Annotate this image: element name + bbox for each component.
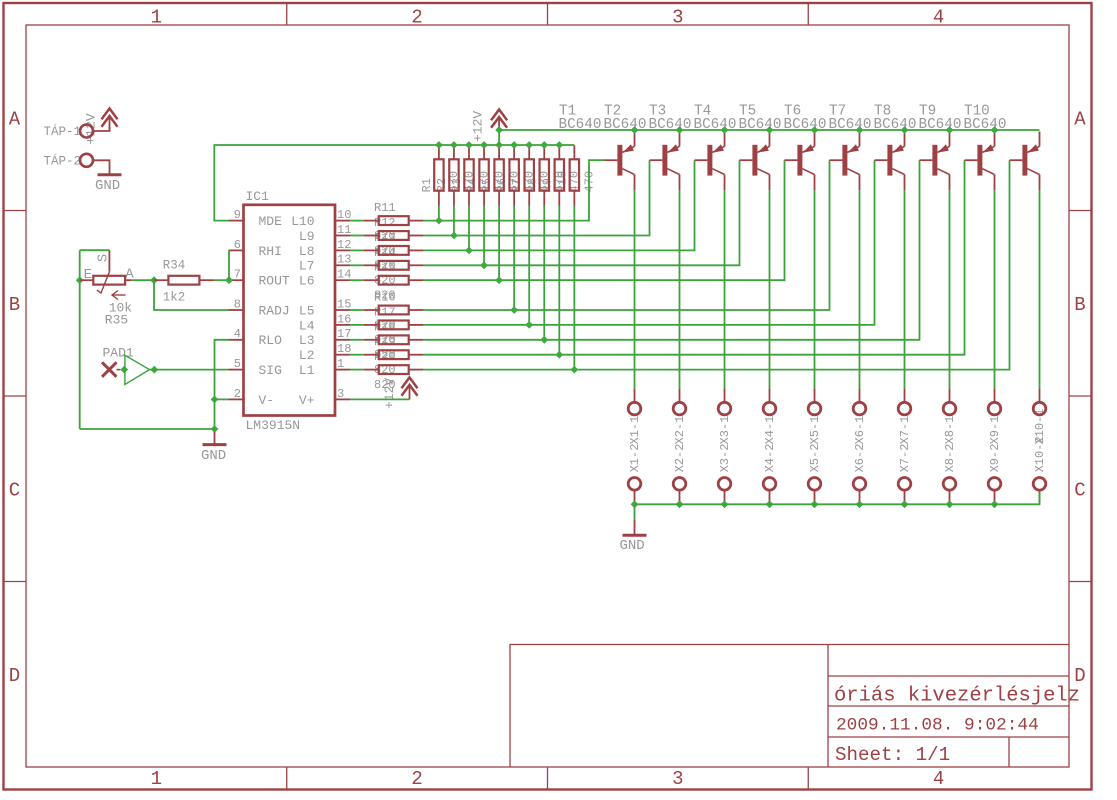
transistor T5 BC640: [797, 145, 802, 176]
resistor R16 820: [364, 309, 379, 311]
node junction bus: [495, 141, 503, 149]
wire resistor to row: [543, 206, 545, 340]
svg-text:X7-1: X7-1: [898, 416, 912, 445]
resistor R9 470: [558, 145, 560, 159]
connector X9-2: [988, 478, 1001, 491]
resistor R1 470: [438, 145, 440, 159]
node junction bus: [540, 141, 548, 149]
node junction: [465, 247, 473, 255]
node junction emitter bus: [676, 126, 684, 134]
svg-text:2009.11.08. 9:02:44: 2009.11.08. 9:02:44: [836, 716, 1039, 736]
node junction gnd: [211, 425, 219, 433]
svg-text:C: C: [9, 479, 20, 501]
wire row to transistor base: [424, 160, 965, 355]
node junction triangle tip: [150, 366, 158, 374]
node junction gnd bus: [991, 500, 999, 508]
svg-text:V+: V+: [299, 393, 315, 408]
node junction emitter bus: [631, 126, 639, 134]
transistor T3 BC640: [707, 145, 712, 176]
wire down to ground bus: [214, 399, 216, 429]
node junction gnd bus: [721, 500, 729, 508]
svg-text:R18: R18: [374, 320, 396, 334]
wire row to transistor base: [424, 160, 1010, 369]
node junction gnd bus: [766, 500, 774, 508]
wire resistor to row: [558, 206, 560, 355]
wire collector down: [904, 190, 906, 388]
resistor R5 470: [498, 145, 500, 159]
wire row to transistor base: [424, 160, 605, 220]
supply +12V arrow (top): [491, 117, 507, 128]
supply +12V arrow (V+): [402, 385, 418, 396]
node junction bus: [510, 141, 518, 149]
node junction gnd bus: [676, 500, 684, 508]
pin 10 L10: [335, 220, 350, 222]
connector X2-1: [679, 388, 681, 402]
svg-text:ROUT: ROUT: [259, 274, 290, 289]
node junction emitter bus: [721, 126, 729, 134]
frame column dividers bottom: [286, 767, 288, 790]
svg-text:A: A: [9, 108, 21, 130]
svg-text:LM3915N: LM3915N: [246, 418, 301, 433]
svg-text:X4-1: X4-1: [763, 416, 777, 445]
svg-text:L3: L3: [299, 333, 315, 348]
wire emitter bus: [499, 129, 1039, 131]
svg-text:RHI: RHI: [259, 244, 282, 259]
svg-text:X8-1: X8-1: [943, 416, 957, 445]
wire L3: [350, 339, 364, 341]
wire pot left/wiper net: [80, 249, 110, 251]
svg-text:X1-2: X1-2: [628, 444, 642, 473]
wire L1: [350, 369, 364, 371]
node junction: [435, 217, 443, 225]
svg-text:IC1: IC1: [246, 189, 270, 204]
title block grid: [827, 645, 829, 768]
svg-text:X9-1: X9-1: [988, 416, 1002, 445]
resistor R17 820: [364, 324, 379, 326]
svg-text:R17: R17: [374, 305, 396, 319]
node junction: [525, 321, 533, 329]
op-amp U1 IC1 LM3915N body: [244, 205, 336, 416]
node junction emitter bus: [811, 126, 819, 134]
wire collector down: [769, 190, 771, 388]
pin 9 MDE: [229, 220, 244, 222]
connector X8-1: [949, 388, 951, 402]
svg-text:L5: L5: [299, 303, 315, 318]
wire RLO down to V-: [215, 340, 229, 400]
wire row to transistor base: [424, 160, 785, 280]
svg-text:R34: R34: [163, 259, 186, 273]
resistor R3 470: [468, 145, 470, 159]
wire connector ground bus: [635, 492, 1040, 504]
transistor T4 BC640: [752, 145, 757, 176]
node junction emitter bus: [856, 126, 864, 134]
svg-text:B: B: [1074, 294, 1085, 316]
wire row to transistor base: [424, 160, 920, 340]
node junction: [480, 261, 488, 269]
resistor R18 820: [364, 339, 379, 341]
svg-text:L9: L9: [299, 229, 315, 244]
node junction bus: [525, 141, 533, 149]
supply +12V arrow (TAP-1): [102, 116, 118, 127]
wire L2: [350, 354, 364, 356]
svg-text:L6: L6: [299, 274, 315, 289]
svg-text:X2-1: X2-1: [673, 416, 687, 445]
pad TAP-1: [80, 125, 93, 138]
transistor T7 BC640: [887, 145, 892, 176]
svg-text:R15: R15: [374, 261, 396, 275]
resistor R19 820: [364, 354, 379, 356]
wire row to transistor base: [424, 160, 830, 310]
svg-text:L10: L10: [291, 214, 314, 229]
svg-text:X4-2: X4-2: [763, 444, 777, 473]
pad TAP-2: [80, 154, 93, 167]
wire V+: [350, 398, 410, 400]
svg-text:X7-2: X7-2: [898, 444, 912, 473]
frame row dividers left: [4, 210, 27, 212]
pin 6 RHI: [229, 249, 244, 251]
connector X4-1: [769, 388, 771, 402]
wire L6: [350, 279, 364, 281]
resistor R10 470: [573, 145, 575, 159]
node junction: [450, 232, 458, 240]
node junction: [540, 336, 548, 344]
transistor T6 BC640: [842, 145, 847, 176]
wire row to transistor base: [424, 160, 740, 265]
node junction emitter bus: [946, 126, 954, 134]
svg-text:R12: R12: [374, 216, 396, 230]
resistor R6 470: [513, 145, 515, 159]
node junction pot E: [76, 276, 84, 284]
node junction gnd bus: [811, 500, 819, 508]
ground GND (IC): [214, 429, 216, 433]
connector X1-1: [634, 388, 636, 402]
wire TAP-2 to GND: [93, 160, 110, 173]
connector X3-1: [724, 388, 726, 402]
svg-text:TÁP-1: TÁP-1: [44, 124, 82, 139]
svg-text:+12V: +12V: [84, 113, 99, 144]
pin 4 RLO: [229, 339, 244, 341]
wire row to transistor base: [424, 160, 650, 235]
svg-text:R13: R13: [374, 231, 396, 245]
svg-text:820: 820: [374, 378, 396, 392]
svg-text:GND: GND: [620, 538, 645, 554]
svg-text:L7: L7: [299, 259, 315, 274]
svg-text:SIG: SIG: [259, 363, 282, 378]
svg-text:R10: R10: [555, 171, 569, 193]
node junction emitter bus: [991, 126, 999, 134]
node junction PAD1: [120, 366, 128, 374]
transistor T1 BC640: [617, 145, 622, 176]
connector X10-1: [1039, 388, 1041, 402]
resistor R15 820: [364, 279, 379, 281]
wire +12V to bus: [498, 130, 500, 145]
svg-text:Sheet: 1/1: Sheet: 1/1: [835, 744, 950, 766]
svg-text:R1: R1: [420, 178, 434, 192]
connector X3-2: [718, 478, 731, 491]
svg-text:X3-1: X3-1: [718, 416, 732, 445]
pin 7 ROUT: [229, 279, 244, 281]
node junction ROUT/RHI: [225, 276, 233, 284]
wire V-: [215, 398, 229, 400]
node junction gnd bus: [901, 500, 909, 508]
wire resistor to row: [483, 206, 485, 266]
transistor T8 BC640: [932, 145, 937, 176]
node junction emitter bus: [901, 126, 909, 134]
svg-text:2: 2: [411, 768, 422, 790]
wire row to transistor base: [424, 160, 875, 325]
svg-text:X10-2: X10-2: [1033, 436, 1047, 472]
svg-text:R14: R14: [374, 246, 396, 260]
transistor T2 BC640: [662, 145, 667, 176]
pin 3 V+: [335, 398, 350, 400]
svg-text:L8: L8: [299, 244, 315, 259]
resistor R8 470: [543, 145, 545, 159]
svg-text:óriás kivezérlésjelz: óriás kivezérlésjelz: [834, 685, 1080, 708]
pin 17 L3: [335, 339, 350, 341]
pin 16 L4: [335, 324, 350, 326]
svg-text:D: D: [1074, 665, 1085, 687]
wire collector down: [859, 190, 861, 388]
pin 2 V-: [229, 398, 244, 400]
pin 14 L6: [335, 279, 350, 281]
connector X5-2: [808, 478, 821, 491]
wire triangle marker: [125, 355, 150, 384]
node junction: [495, 126, 503, 134]
wire resistor to row: [438, 206, 440, 221]
svg-text:1: 1: [151, 768, 162, 790]
wire collector down: [814, 190, 816, 388]
node junction gnd bus: [856, 500, 864, 508]
node junction bus: [480, 141, 488, 149]
svg-text:X8-2: X8-2: [943, 444, 957, 473]
wire collector down: [679, 190, 681, 388]
wire pot A to R34: [131, 279, 154, 281]
connector X1-2: [628, 478, 641, 491]
connector X8-2: [943, 478, 956, 491]
svg-text:3: 3: [672, 768, 683, 790]
wire row to transistor base: [424, 160, 695, 250]
resistor R34 1k2: [154, 279, 168, 281]
pin 8 RADJ: [229, 309, 244, 311]
connector X7-1: [904, 388, 906, 402]
svg-text:R19: R19: [374, 335, 396, 349]
pin 12 L8: [335, 249, 350, 251]
pin 11 L9: [335, 235, 350, 237]
resistor R2 470: [453, 145, 455, 159]
wire L7: [350, 264, 364, 266]
pin 15 L5: [335, 309, 350, 311]
node junction bus: [465, 141, 473, 149]
wire collector down: [949, 190, 951, 388]
svg-text:GND: GND: [201, 448, 226, 464]
transistor T9 BC640: [977, 145, 982, 176]
svg-text:RLO: RLO: [259, 333, 283, 348]
svg-text:V-: V-: [259, 393, 275, 408]
svg-text:X5-1: X5-1: [808, 416, 822, 445]
svg-text:X3-2: X3-2: [718, 444, 732, 473]
svg-text:R35: R35: [105, 313, 128, 328]
node junction: [570, 366, 578, 374]
node junction emitter bus: [766, 126, 774, 134]
node junction gnd bus: [946, 500, 954, 508]
pad PAD1: [102, 362, 117, 377]
wire resistor to row: [498, 206, 500, 281]
resistor R7 470: [528, 145, 530, 159]
connector X5-1: [814, 388, 816, 402]
svg-text:GND: GND: [95, 178, 120, 194]
document box: [510, 645, 1069, 768]
wire resistor to row: [573, 206, 575, 370]
frame column dividers top: [286, 3, 288, 25]
pin 13 L7: [335, 264, 350, 266]
resistor R11 820: [364, 220, 379, 222]
svg-text:L2: L2: [299, 348, 315, 363]
node junction bus: [450, 141, 458, 149]
wire collector down: [724, 190, 726, 388]
node junction: [495, 276, 503, 284]
resistor R20 820: [364, 369, 379, 371]
wire L4: [350, 324, 364, 326]
svg-text:X6-2: X6-2: [853, 444, 867, 473]
wire resistor to row: [528, 206, 530, 325]
wire ground horizontal: [80, 428, 215, 430]
svg-text:A: A: [1074, 108, 1086, 130]
resistor R12 820: [364, 235, 379, 237]
wire MDE to +12V resistor bus: [214, 145, 574, 221]
svg-text:1k2: 1k2: [163, 291, 186, 305]
wire resistor to row: [513, 206, 515, 311]
node junction bus: [555, 141, 563, 149]
potentiometer R35 10k: [80, 279, 94, 281]
wire resistor to row: [453, 206, 455, 236]
resistor R4 470: [483, 145, 485, 159]
wire L5: [350, 309, 364, 311]
wire collector down: [1039, 190, 1041, 388]
connector X6-1: [859, 388, 861, 402]
connector X9-1: [994, 388, 996, 402]
wire L9: [350, 235, 364, 237]
connector X6-2: [853, 478, 866, 491]
connector X4-2: [763, 478, 776, 491]
wire collector down: [634, 190, 636, 388]
connector X2-2: [673, 478, 686, 491]
wire R34 to ROUT: [214, 279, 228, 281]
resistor R14 820: [364, 264, 379, 266]
svg-text:X9-2: X9-2: [988, 444, 1002, 473]
wire collector down: [994, 190, 996, 388]
svg-text:R20: R20: [374, 350, 396, 364]
frame row dividers right: [1069, 210, 1092, 212]
pin 1 L1: [335, 369, 350, 371]
ground GND (connectors): [634, 504, 636, 521]
svg-text:X5-2: X5-2: [808, 444, 822, 473]
svg-text:TÁP-2: TÁP-2: [44, 153, 82, 168]
wire L8: [350, 249, 364, 251]
svg-text:MDE: MDE: [259, 214, 283, 229]
pin 5 SIG: [229, 369, 244, 371]
node junction: [555, 351, 563, 359]
resistor R13 820: [364, 249, 379, 251]
node junction gnd bus: [631, 500, 639, 508]
wire SIG: [150, 369, 229, 371]
svg-text:R11: R11: [374, 201, 396, 215]
svg-text:X2-2: X2-2: [673, 444, 687, 473]
connector X7-2: [898, 478, 911, 491]
node junction bus: [435, 141, 443, 149]
svg-text:X1-1: X1-1: [628, 416, 642, 445]
connector X10-2: [1033, 478, 1046, 491]
svg-text:L4: L4: [299, 318, 315, 333]
svg-text:L1: L1: [299, 363, 315, 378]
svg-text:C: C: [1074, 479, 1085, 501]
node junction pot-A/RADJ: [150, 276, 158, 284]
svg-text:B: B: [9, 294, 20, 316]
node junction V-: [211, 396, 219, 404]
wire L10: [350, 220, 364, 222]
transistor T10 BC640: [1022, 145, 1027, 176]
node junction: [510, 306, 518, 314]
svg-text:RADJ: RADJ: [259, 303, 290, 318]
svg-text:+12V: +12V: [471, 111, 486, 142]
wire resistor to row: [468, 206, 470, 251]
svg-text:4: 4: [933, 768, 944, 790]
svg-text:D: D: [9, 665, 20, 687]
svg-text:R16: R16: [374, 291, 396, 305]
wire RADJ: [154, 280, 229, 310]
pin 18 L2: [335, 354, 350, 356]
svg-text:X6-1: X6-1: [853, 416, 867, 445]
wire RHI: [228, 250, 231, 280]
wire TAP-1 to +12V: [93, 127, 110, 131]
ground GND (TAP-2): [98, 173, 122, 176]
